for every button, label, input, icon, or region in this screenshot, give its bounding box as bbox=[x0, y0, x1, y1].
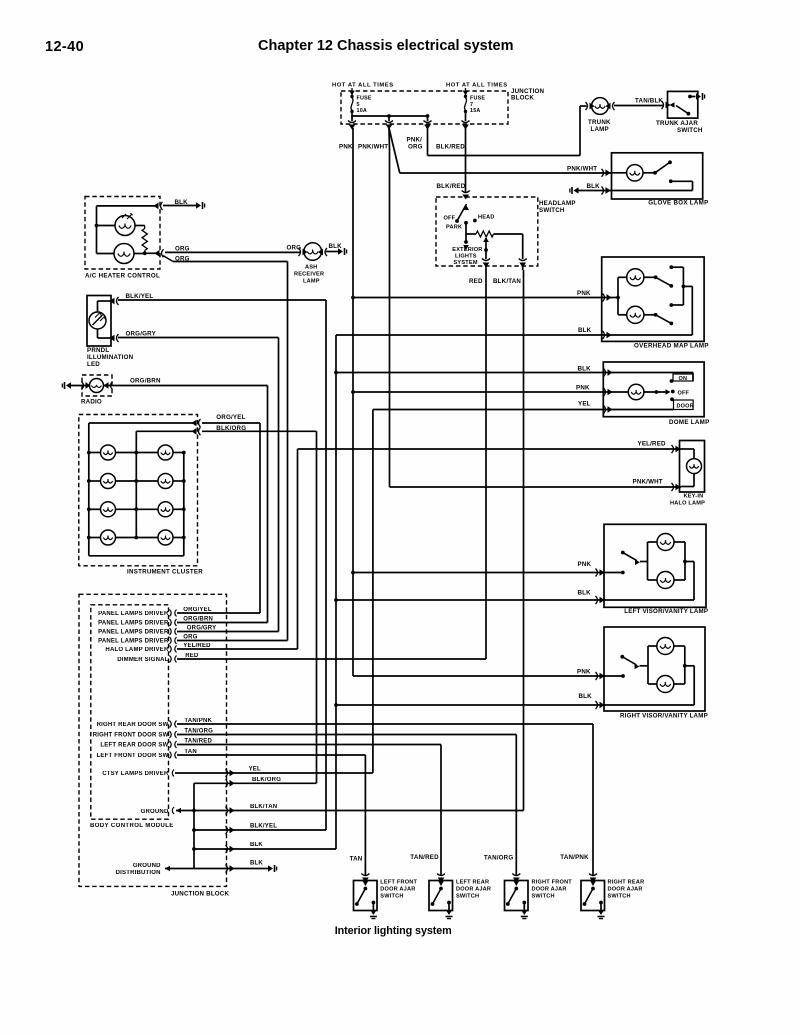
svg-text:12-40: 12-40 bbox=[45, 39, 84, 55]
svg-text:CTSY LAMPS DRIVER: CTSY LAMPS DRIVER bbox=[102, 771, 169, 777]
svg-text:PANEL LAMPS DRIVER: PANEL LAMPS DRIVER bbox=[98, 611, 169, 617]
svg-text:HOT AT ALL TIMES: HOT AT ALL TIMES bbox=[446, 83, 508, 89]
svg-text:BLK: BLK bbox=[578, 366, 592, 373]
svg-text:LEFT FRONT: LEFT FRONT bbox=[380, 880, 417, 886]
svg-text:HALO LAMP DRIVER: HALO LAMP DRIVER bbox=[105, 647, 169, 653]
svg-text:ORG/GRY: ORG/GRY bbox=[187, 626, 217, 632]
svg-text:PNK: PNK bbox=[577, 290, 591, 297]
svg-text:BLK/TAN: BLK/TAN bbox=[493, 278, 521, 285]
svg-text:BLK/RED: BLK/RED bbox=[436, 144, 465, 151]
svg-text:DOME LAMP: DOME LAMP bbox=[669, 419, 710, 426]
svg-text:SWITCH: SWITCH bbox=[456, 894, 479, 900]
svg-text:ON: ON bbox=[679, 376, 688, 382]
svg-text:SWITCH: SWITCH bbox=[380, 894, 403, 900]
svg-text:GROUND: GROUND bbox=[133, 863, 161, 869]
svg-text:GROUND: GROUND bbox=[141, 809, 169, 815]
svg-text:PNK/WHT: PNK/WHT bbox=[633, 479, 663, 486]
svg-text:ORG/BRN: ORG/BRN bbox=[183, 617, 213, 623]
svg-text:DOOR AJAR: DOOR AJAR bbox=[608, 887, 643, 893]
svg-text:ORG: ORG bbox=[175, 256, 190, 263]
svg-text:TAN: TAN bbox=[350, 856, 363, 863]
svg-text:HOT AT ALL TIMES: HOT AT ALL TIMES bbox=[332, 83, 394, 89]
svg-text:LEFT REAR: LEFT REAR bbox=[456, 880, 489, 886]
svg-text:SWITCH: SWITCH bbox=[539, 207, 565, 214]
svg-text:BLK: BLK bbox=[579, 693, 593, 700]
svg-text:LIGHTS: LIGHTS bbox=[455, 254, 477, 260]
svg-text:BLK/YEL: BLK/YEL bbox=[250, 824, 277, 830]
svg-text:PNK: PNK bbox=[339, 144, 353, 151]
svg-text:TAN/BLK: TAN/BLK bbox=[635, 98, 663, 105]
svg-text:RADIO: RADIO bbox=[81, 399, 102, 406]
svg-text:Chapter 12 Chassis electrical: Chapter 12 Chassis electrical system bbox=[258, 38, 514, 54]
svg-text:HEADLAMP: HEADLAMP bbox=[539, 200, 576, 207]
svg-text:EXTERIOR: EXTERIOR bbox=[452, 247, 482, 253]
svg-text:ORG/YEL: ORG/YEL bbox=[216, 414, 245, 421]
svg-text:DOOR AJAR: DOOR AJAR bbox=[532, 887, 567, 893]
svg-text:15A: 15A bbox=[470, 108, 481, 114]
svg-text:BLK: BLK bbox=[578, 590, 592, 597]
svg-text:PNK: PNK bbox=[578, 561, 592, 568]
svg-text:BLK: BLK bbox=[329, 243, 343, 250]
svg-text:HEAD: HEAD bbox=[478, 215, 495, 221]
svg-text:RIGHT REAR DOOR SW: RIGHT REAR DOOR SW bbox=[97, 722, 169, 728]
svg-text:DISTRIBUTION: DISTRIBUTION bbox=[116, 870, 161, 876]
svg-text:ILLUMINATION: ILLUMINATION bbox=[87, 354, 134, 361]
svg-text:BLK/RED: BLK/RED bbox=[437, 183, 466, 190]
svg-text:PARK: PARK bbox=[446, 225, 462, 231]
svg-text:LEFT VISOR/VANITY LAMP: LEFT VISOR/VANITY LAMP bbox=[624, 608, 708, 615]
svg-text:BODY CONTROL MODULE: BODY CONTROL MODULE bbox=[90, 823, 174, 829]
svg-text:RIGHT FRONT: RIGHT FRONT bbox=[532, 880, 573, 886]
svg-text:10A: 10A bbox=[357, 108, 368, 114]
svg-text:DOOR: DOOR bbox=[677, 404, 694, 410]
svg-text:5: 5 bbox=[357, 102, 360, 108]
svg-text:TRUNK AJAR: TRUNK AJAR bbox=[656, 120, 698, 127]
svg-text:RED: RED bbox=[185, 653, 199, 659]
svg-text:TAN/PNK: TAN/PNK bbox=[184, 718, 212, 724]
svg-text:YEL/RED: YEL/RED bbox=[638, 441, 667, 448]
svg-text:FUSE: FUSE bbox=[357, 96, 372, 102]
svg-text:BLK: BLK bbox=[587, 183, 601, 190]
svg-text:PNK/WHT: PNK/WHT bbox=[358, 144, 388, 151]
svg-text:LEFT FRONT DOOR SW: LEFT FRONT DOOR SW bbox=[97, 753, 169, 759]
svg-text:PNK/WHT: PNK/WHT bbox=[567, 166, 597, 173]
svg-text:BLK/TAN: BLK/TAN bbox=[250, 804, 277, 810]
svg-text:A/C HEATER CONTROL: A/C HEATER CONTROL bbox=[85, 273, 160, 280]
svg-text:LAMP: LAMP bbox=[303, 279, 320, 285]
svg-text:LEFT REAR DOOR SW: LEFT REAR DOOR SW bbox=[100, 743, 168, 749]
svg-text:OFF: OFF bbox=[444, 216, 456, 222]
svg-text:PNK: PNK bbox=[577, 669, 591, 676]
svg-text:KEY-IN: KEY-IN bbox=[684, 494, 704, 500]
svg-text:TAN/PNK: TAN/PNK bbox=[560, 854, 589, 861]
svg-text:BLK: BLK bbox=[250, 861, 263, 867]
svg-text:7: 7 bbox=[470, 102, 473, 108]
svg-text:BLOCK: BLOCK bbox=[511, 95, 534, 102]
svg-text:ORG/GRY: ORG/GRY bbox=[126, 331, 157, 338]
svg-text:RIGHT REAR: RIGHT REAR bbox=[608, 880, 645, 886]
svg-text:ORG: ORG bbox=[175, 246, 190, 253]
svg-text:TAN/RED: TAN/RED bbox=[184, 739, 212, 745]
svg-text:JUNCTION BLOCK: JUNCTION BLOCK bbox=[171, 891, 229, 898]
svg-text:TAN/ORG: TAN/ORG bbox=[184, 729, 213, 735]
svg-text:PANEL LAMPS DRIVER: PANEL LAMPS DRIVER bbox=[98, 630, 169, 636]
svg-text:OFF: OFF bbox=[678, 391, 690, 397]
svg-text:LAMP: LAMP bbox=[591, 126, 609, 133]
svg-text:ORG/BRN: ORG/BRN bbox=[130, 378, 161, 385]
svg-text:HALO LAMP: HALO LAMP bbox=[670, 501, 705, 507]
svg-text:PANEL LAMPS DRIVER: PANEL LAMPS DRIVER bbox=[98, 639, 169, 645]
svg-text:YEL/RED: YEL/RED bbox=[183, 643, 211, 649]
svg-text:GLOVE BOX LAMP: GLOVE BOX LAMP bbox=[648, 200, 708, 207]
svg-text:ASH: ASH bbox=[305, 265, 317, 271]
svg-text:YEL: YEL bbox=[578, 401, 591, 408]
svg-text:BLK/ORG: BLK/ORG bbox=[252, 777, 281, 783]
svg-text:DIMMER SIGNAL: DIMMER SIGNAL bbox=[117, 657, 168, 663]
svg-text:PANEL LAMPS DRIVER: PANEL LAMPS DRIVER bbox=[98, 621, 169, 627]
svg-text:TAN: TAN bbox=[184, 749, 197, 755]
svg-text:LED: LED bbox=[87, 361, 100, 368]
svg-text:BLK: BLK bbox=[250, 842, 263, 848]
svg-text:BLK/ORG: BLK/ORG bbox=[216, 425, 246, 432]
svg-text:TAN/ORG: TAN/ORG bbox=[484, 855, 513, 862]
svg-text:ORG: ORG bbox=[183, 635, 197, 641]
svg-text:TAN/RED: TAN/RED bbox=[410, 854, 439, 861]
svg-text:RIGHT VISOR/VANITY LAMP: RIGHT VISOR/VANITY LAMP bbox=[620, 713, 708, 720]
svg-text:SWITCH: SWITCH bbox=[532, 894, 555, 900]
svg-text:Interior lighting system: Interior lighting system bbox=[335, 925, 452, 937]
svg-text:SWITCH: SWITCH bbox=[677, 127, 703, 134]
svg-text:BLK: BLK bbox=[578, 327, 592, 334]
svg-text:PNK: PNK bbox=[576, 385, 590, 392]
svg-text:TRUNK: TRUNK bbox=[588, 119, 611, 126]
svg-text:ORG: ORG bbox=[408, 144, 423, 151]
svg-text:BLK: BLK bbox=[175, 199, 189, 206]
svg-text:RECEIVER: RECEIVER bbox=[294, 272, 324, 278]
svg-text:DOOR AJAR: DOOR AJAR bbox=[456, 887, 491, 893]
svg-text:PRNDL: PRNDL bbox=[87, 347, 109, 354]
svg-text:INSTRUMENT CLUSTER: INSTRUMENT CLUSTER bbox=[127, 569, 203, 576]
svg-text:BLK/YEL: BLK/YEL bbox=[126, 293, 154, 300]
svg-text:SWITCH: SWITCH bbox=[608, 894, 631, 900]
svg-text:FUSE: FUSE bbox=[470, 96, 485, 102]
svg-text:RED: RED bbox=[469, 278, 483, 285]
svg-text:ORG: ORG bbox=[287, 245, 302, 252]
svg-text:RIGHT FRONT DOOR SW: RIGHT FRONT DOOR SW bbox=[93, 733, 169, 739]
svg-text:SYSTEM: SYSTEM bbox=[454, 260, 478, 266]
svg-text:PNK/: PNK/ bbox=[407, 137, 423, 144]
svg-text:YEL: YEL bbox=[249, 767, 261, 773]
svg-text:ORG/YEL: ORG/YEL bbox=[183, 607, 212, 613]
svg-text:OVERHEAD MAP LAMP: OVERHEAD MAP LAMP bbox=[634, 343, 709, 350]
svg-text:DOOR AJAR: DOOR AJAR bbox=[380, 887, 415, 893]
